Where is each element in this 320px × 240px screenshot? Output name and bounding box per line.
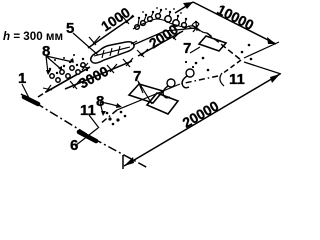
svg-text:6: 6	[70, 137, 78, 154]
svg-text:8: 8	[42, 43, 50, 60]
svg-text:5: 5	[66, 20, 74, 37]
svg-text:7: 7	[133, 68, 141, 85]
svg-text:8: 8	[96, 93, 104, 110]
svg-text:7: 7	[183, 40, 191, 57]
svg-text:h = 300 мм: h = 300 мм	[3, 30, 63, 43]
svg-text:1: 1	[18, 70, 26, 87]
svg-text:11: 11	[229, 71, 245, 88]
svg-text:11: 11	[80, 102, 96, 119]
